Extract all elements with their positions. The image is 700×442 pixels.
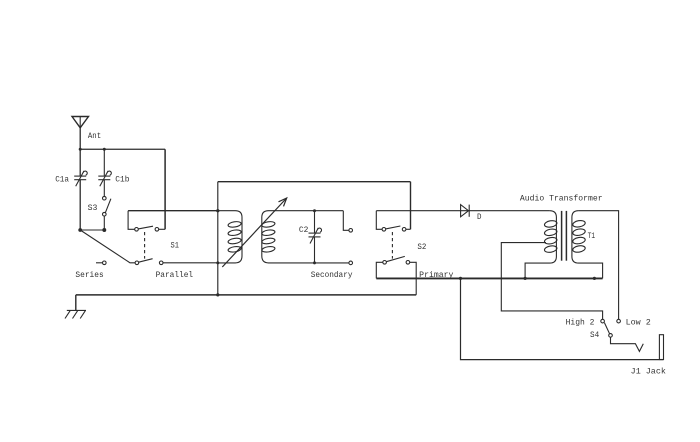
svg-text:T1: T1: [588, 232, 596, 241]
svg-text:Ant: Ant: [88, 132, 101, 141]
svg-text:Parallel: Parallel: [156, 271, 194, 280]
svg-text:C1b: C1b: [115, 176, 129, 185]
svg-text:Secondary: Secondary: [311, 271, 353, 280]
svg-text:C2: C2: [299, 226, 309, 235]
svg-text:S4: S4: [590, 331, 599, 340]
svg-text:C1a: C1a: [55, 176, 69, 185]
svg-text:Audio Transformer: Audio Transformer: [520, 194, 603, 203]
svg-text:Primary: Primary: [419, 271, 453, 280]
svg-text:Series: Series: [75, 271, 103, 280]
svg-text:S1: S1: [171, 241, 180, 250]
svg-text:High 2: High 2: [566, 319, 595, 328]
svg-text:J1 Jack: J1 Jack: [631, 368, 666, 377]
svg-text:Low 2: Low 2: [626, 319, 651, 328]
svg-text:S3: S3: [88, 204, 98, 213]
svg-text:D: D: [477, 213, 482, 222]
svg-text:S2: S2: [417, 243, 426, 252]
